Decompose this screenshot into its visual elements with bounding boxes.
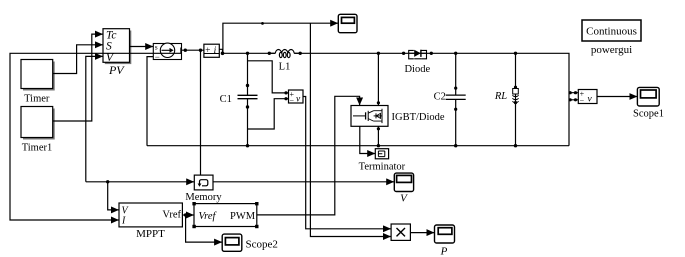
wire: C1 bottom to bottom rail xyxy=(247,99,249,146)
product block xyxy=(391,224,410,240)
wire: C2 branch xyxy=(455,53,457,145)
wire: MPPT Vref output to PWM block xyxy=(182,214,193,216)
label RL xyxy=(494,91,507,102)
node: small dot on top signal line xyxy=(261,22,264,25)
wire: current source minus terminal to bottom rail xyxy=(147,57,153,146)
wire: top DC rail from current measurement to right corner xyxy=(223,53,570,145)
wire: IGBT emitter to bottom rail xyxy=(377,126,379,145)
svg-text:MPPT: MPPT xyxy=(136,228,165,240)
svg-text:+: + xyxy=(205,46,210,56)
wire: C1 plus tap to voltage measurement plus input xyxy=(248,61,289,93)
node: junction on memory feed line xyxy=(106,180,109,183)
svg-text:Vref: Vref xyxy=(199,211,218,222)
wire: IGBT collector branch from rail xyxy=(377,53,379,105)
node: IGBT branch dots xyxy=(377,52,380,148)
label C2 xyxy=(434,91,446,102)
wire: C1 branch from top rail xyxy=(247,53,249,95)
svg-text:P: P xyxy=(440,245,448,257)
wire: V measurement output down to product block upper input xyxy=(303,97,391,229)
powergui block xyxy=(582,20,641,56)
svg-text:Diode: Diode xyxy=(404,64,430,75)
wire: Memory output to V scope xyxy=(213,181,394,183)
svg-text:Timer: Timer xyxy=(24,94,50,105)
node: voltage measurement input dots xyxy=(284,91,287,100)
node: L1 terminal dots xyxy=(268,52,302,55)
svg-text:C1: C1 xyxy=(220,94,232,105)
IGBT/Diode block xyxy=(351,106,445,127)
block PV xyxy=(103,29,131,77)
node: Vref junction xyxy=(184,213,187,216)
node: C2 dots xyxy=(454,52,457,148)
scope Scope1 xyxy=(633,87,664,119)
wire: PV output to controlled current source s input xyxy=(130,46,154,48)
node: RL dots xyxy=(514,52,517,148)
diode block xyxy=(404,50,430,75)
wire: voltage measurement minus input to C1 bottom xyxy=(248,99,289,129)
wire: Timer output to PV S input xyxy=(53,45,103,74)
svg-text:L1: L1 xyxy=(279,61,291,72)
svg-text:Memory: Memory xyxy=(185,192,222,203)
node: C1 junction and port dots xyxy=(246,52,249,148)
wire: product output to P scope xyxy=(410,232,434,234)
wire: IGBT m output to Terminator xyxy=(360,126,375,153)
svg-text:−: − xyxy=(580,97,585,106)
PWM block (selected, with handles) xyxy=(192,202,258,228)
node: diode terminal dots xyxy=(402,52,433,55)
scope V xyxy=(394,173,413,204)
wire: voltage feedback to Memory input xyxy=(86,181,194,183)
scope Scope2 xyxy=(222,234,278,251)
wire: long I-signal line from current measurement back to far left and down to MPPT I input xyxy=(10,53,182,220)
svg-text:I: I xyxy=(121,216,126,227)
svg-text:PWM: PWM xyxy=(230,211,256,222)
wire: output voltage measurement taps xyxy=(569,93,578,100)
output voltage measurement block xyxy=(578,90,597,106)
wire: current source plus output to current measurement xyxy=(182,49,204,51)
capacitor C2 xyxy=(446,95,466,99)
wire: vertical drop from source output junction to Memory top xyxy=(200,50,202,175)
wire: voltage measurement output to Scope1 xyxy=(597,96,637,98)
svg-text:V: V xyxy=(400,192,408,204)
wire: PWM output to IGBT gate xyxy=(257,96,360,215)
wire: current signal up and right to top scope xyxy=(223,23,338,53)
wire: bottom power rail xyxy=(147,145,569,147)
node: junction at measurement output xyxy=(221,52,225,56)
svg-text:S: S xyxy=(106,40,112,52)
terminator block xyxy=(359,149,406,173)
svg-text:−: − xyxy=(290,96,295,105)
svg-text:PV: PV xyxy=(108,63,125,77)
scope P xyxy=(435,225,455,257)
block Timer xyxy=(21,60,55,105)
svg-text:Terminator: Terminator xyxy=(359,161,406,172)
label C1 xyxy=(220,94,232,105)
block Timer1 xyxy=(21,107,55,154)
controlled current source xyxy=(153,42,181,62)
label L1 xyxy=(279,61,291,72)
svg-text:Timer1: Timer1 xyxy=(22,143,53,154)
wire: Vref branch to Scope2 xyxy=(186,215,222,242)
wire: step at current measurement output xyxy=(219,49,222,53)
wire: Timer1 output to PV Tc input xyxy=(53,34,103,121)
series RL element xyxy=(513,89,519,103)
wire: voltage feedback to PV V input xyxy=(86,56,103,181)
memory block xyxy=(185,175,222,203)
svg-text:Vref: Vref xyxy=(162,209,181,220)
svg-text:powergui: powergui xyxy=(591,44,632,56)
svg-text:i: i xyxy=(214,46,217,56)
node: tap dots xyxy=(569,91,578,101)
wire: branch to MPPT V input xyxy=(108,182,119,210)
voltage measurement block at C1 xyxy=(289,90,304,106)
top scope (unlabeled) xyxy=(338,14,357,32)
MPPT block xyxy=(119,203,182,240)
capacitor C1 xyxy=(238,95,258,98)
inductor L1 coil xyxy=(269,50,300,58)
current measurement block xyxy=(204,44,219,57)
svg-text:Scope1: Scope1 xyxy=(633,108,664,119)
node: junction dots on source output wire xyxy=(184,49,203,52)
svg-text:s: s xyxy=(155,42,158,51)
wire: RL load branch xyxy=(515,53,517,145)
svg-text:C2: C2 xyxy=(434,91,446,102)
svg-text:Continuous: Continuous xyxy=(586,25,637,37)
wire: current signal drop to product block lower input xyxy=(310,23,390,236)
svg-text:IGBT/Diode: IGBT/Diode xyxy=(392,112,445,123)
svg-text:RL: RL xyxy=(494,91,507,102)
svg-text:Scope2: Scope2 xyxy=(246,238,278,250)
